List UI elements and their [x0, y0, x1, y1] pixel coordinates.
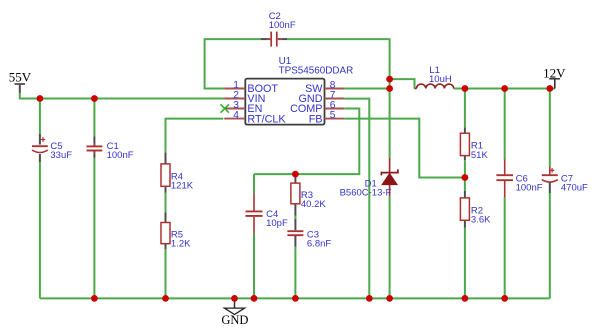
- wire C7 column upper: [549, 89, 551, 168]
- pin 3 EN: [224, 100, 262, 115]
- capacitor C4: [246, 194, 288, 234]
- svg-text:10uH: 10uH: [429, 74, 452, 85]
- svg-text:TPS54560DDAR: TPS54560DDAR: [279, 66, 354, 77]
- svg-text:RT/CLK: RT/CLK: [247, 113, 286, 125]
- wire C6 column upper: [504, 89, 506, 160]
- node VOUT / C6: [501, 85, 508, 92]
- capacitor C7: [542, 167, 588, 193]
- wire GND pin to ground rail: [344, 99, 369, 299]
- svg-text:100nF: 100nF: [269, 20, 296, 31]
- wire C1 column lower: [93, 158, 95, 299]
- svg-text:121K: 121K: [171, 181, 194, 192]
- svg-text:55V: 55V: [9, 69, 32, 84]
- wire D1 to ground rail: [389, 196, 391, 298]
- node gnd / R2: [462, 295, 469, 302]
- node COMP / R3: [292, 171, 299, 178]
- node junctions: [37, 76, 554, 302]
- svg-text:100nF: 100nF: [516, 182, 543, 193]
- svg-text:10pF: 10pF: [266, 218, 288, 229]
- pin 4 RT/CLK: [224, 110, 286, 125]
- pin 2 VIN: [224, 90, 265, 105]
- svg-text:5: 5: [330, 110, 336, 121]
- node gnd / C1: [91, 295, 98, 302]
- wire SW jog to L1: [390, 79, 415, 88]
- node FB / R1 R2: [462, 174, 469, 181]
- inductor L1: [415, 65, 455, 89]
- resistor R4: [161, 152, 194, 192]
- resistor R1: [460, 128, 488, 161]
- no-connect X on EN: [221, 104, 229, 112]
- pin 8 SW: [305, 80, 344, 95]
- wire R3 to C3: [294, 216, 296, 220]
- wire ground rail: [40, 297, 550, 299]
- wire R4 to R5: [165, 193, 167, 213]
- node gnd / U1 GND: [366, 295, 373, 302]
- svg-text:3.6K: 3.6K: [471, 215, 491, 226]
- node gnd / C3: [292, 295, 299, 302]
- power flag 12V: [543, 65, 566, 88]
- node SW pin: [386, 85, 393, 92]
- capacitor C2: [261, 11, 296, 46]
- svg-text:4: 4: [233, 110, 239, 121]
- power flag 55V: [9, 69, 32, 92]
- wire top 55V rail: [20, 93, 224, 99]
- capacitor C3: [287, 219, 331, 250]
- wire FB net: [344, 119, 465, 178]
- node gnd / C4: [251, 295, 258, 302]
- node 55V rail / C1: [91, 95, 98, 102]
- svg-text:470uF: 470uF: [561, 182, 588, 193]
- svg-text:40.2K: 40.2K: [301, 199, 326, 210]
- node gnd / C6: [501, 295, 508, 302]
- node gnd / GND flag: [231, 295, 238, 302]
- svg-text:100nF: 100nF: [107, 150, 134, 161]
- svg-text:GND: GND: [221, 313, 248, 327]
- wire R5 to ground rail: [165, 249, 167, 298]
- resistor R2: [460, 191, 491, 228]
- wire C3 to ground rail: [294, 247, 296, 299]
- node gnd / R5: [162, 295, 169, 302]
- wire COMP net: [254, 109, 359, 175]
- node VOUT / R1: [462, 85, 469, 92]
- wire C5 column upper: [39, 99, 41, 135]
- capacitor C1: [87, 136, 134, 161]
- capacitor C5: [32, 134, 72, 162]
- node SW boot upper: [386, 76, 393, 83]
- wire C7 to ground rail: [549, 193, 551, 298]
- wire SW pin to node: [344, 88, 389, 90]
- resistor R5: [161, 213, 191, 250]
- resistor R3: [291, 174, 326, 215]
- ground symbol GND: [221, 298, 248, 326]
- wire BOOT loop left: [205, 39, 261, 88]
- wire RT/CLK to R4: [166, 119, 224, 153]
- svg-text:FB: FB: [309, 113, 323, 125]
- wire output rail: [454, 88, 555, 90]
- node 55V rail / C5: [37, 95, 44, 102]
- wire C2 right to SW net: [287, 39, 390, 158]
- diode D1: [340, 158, 398, 199]
- wire C4 column upper: [253, 174, 255, 193]
- wire C5 column lower: [39, 162, 41, 298]
- pin 5 FB: [309, 110, 345, 125]
- node VOUT / C7: [546, 85, 553, 92]
- node gnd / D1: [386, 295, 393, 302]
- pin 1 BOOT: [224, 80, 278, 95]
- svg-text:33uF: 33uF: [50, 150, 72, 161]
- pin 6 COMP: [290, 100, 344, 115]
- svg-text:51K: 51K: [471, 150, 489, 161]
- svg-text:B560C-13-F: B560C-13-F: [340, 188, 392, 199]
- wire R1 column upper: [464, 89, 466, 128]
- capacitor C6: [496, 160, 542, 198]
- pin 7 GND: [299, 90, 345, 105]
- op IC U1 box: [245, 56, 353, 124]
- wire C1 column upper: [93, 99, 95, 137]
- svg-text:6.8nF: 6.8nF: [307, 239, 331, 250]
- svg-text:1.2K: 1.2K: [171, 239, 191, 250]
- wire R2 to ground rail: [464, 228, 466, 299]
- wire C4 to ground rail: [253, 234, 255, 299]
- wire R1 to R2 node: [464, 160, 466, 191]
- wire C6 to ground rail: [504, 198, 506, 299]
